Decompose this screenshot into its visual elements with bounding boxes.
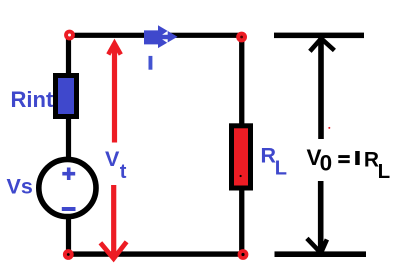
wire left <box>66 33 71 255</box>
source Vs <box>39 159 96 216</box>
annotation arrow shaft lower <box>318 181 324 252</box>
arrow Vt lower (red, pointing down) <box>100 185 126 259</box>
annotation top bar <box>274 33 364 39</box>
svg-text:0: 0 <box>320 151 333 176</box>
svg-text:t: t <box>120 161 127 183</box>
annotation arrowhead down <box>307 238 327 253</box>
minus sign <box>62 207 76 211</box>
label V0 = I RL <box>307 145 391 183</box>
resistor Rint <box>56 76 77 117</box>
node top-left <box>64 30 75 41</box>
current arrow (blue block arrow) <box>144 25 178 48</box>
arrow Vt upper (red, pointing up) <box>108 43 121 142</box>
svg-text:Vs: Vs <box>7 174 33 198</box>
annotation bottom bar <box>275 251 367 257</box>
svg-text:Rint: Rint <box>11 87 54 112</box>
label RL <box>261 144 288 180</box>
svg-text:V: V <box>105 147 120 171</box>
annotation arrow shaft upper <box>318 37 324 139</box>
node bottom-left <box>63 249 74 260</box>
stray red dot <box>328 127 330 129</box>
node bottom-right <box>238 249 249 260</box>
wire bottom <box>65 251 245 256</box>
svg-text:L: L <box>378 160 391 183</box>
wire right <box>239 34 244 255</box>
resistor RL <box>232 126 251 188</box>
svg-text:L: L <box>275 158 287 180</box>
node top-right <box>236 32 247 43</box>
wire top <box>66 33 244 38</box>
annotation arrowhead up <box>310 39 335 52</box>
plus sign <box>62 168 75 181</box>
label Vt <box>105 147 127 183</box>
label I <box>149 56 153 70</box>
